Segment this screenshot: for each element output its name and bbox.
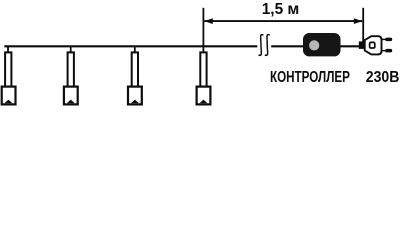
svg-text:м: м [287,0,299,18]
lamp 3 tip triangle [131,100,139,104]
lamp 4 tube [200,52,206,87]
lamp 2 stem [70,46,72,54]
plug cord grip [359,41,365,49]
wire main cord left section [4,45,257,47]
wire cord between controller and plug [341,45,360,47]
lamp 1 stem [7,46,9,54]
dimension arrow left [204,18,213,24]
lamp 3 tube [132,52,138,87]
dimension right extension tick [362,8,364,43]
svg-text:230В: 230В [366,68,400,86]
controller body [303,33,341,56]
break squiggle 2 [265,35,270,56]
lamp 1 bulb [2,87,16,105]
break squiggle 1 [259,35,264,56]
lamp 2 bulb [64,87,78,105]
lamp 3 bulb [128,87,142,105]
lamp 4 tip triangle [200,100,208,104]
plug body [365,36,382,54]
plug pin bottom [385,49,392,53]
lamp 2 tube [68,52,74,87]
svg-text:1,5: 1,5 [262,1,284,18]
controller button [309,40,319,50]
lamp 2 tip triangle [67,100,75,104]
lamp 1 tube [5,52,11,87]
plug pin top neck [382,38,387,40]
plug screw hole [370,42,375,48]
lamp 3 stem [134,46,136,54]
lamp 1 tip triangle [4,100,12,104]
plug pin bottom neck [382,50,387,52]
dimension left extension tick merging into lamp 4 stem [202,8,204,54]
svg-text:КОНТРОЛЛЕР: КОНТРОЛЛЕР [270,67,350,85]
wire cord between break and controller [271,45,304,47]
plug pin top [385,38,392,42]
lamp 4 bulb [197,87,211,105]
dimension arrow right [354,18,363,24]
dimension line [204,20,362,22]
